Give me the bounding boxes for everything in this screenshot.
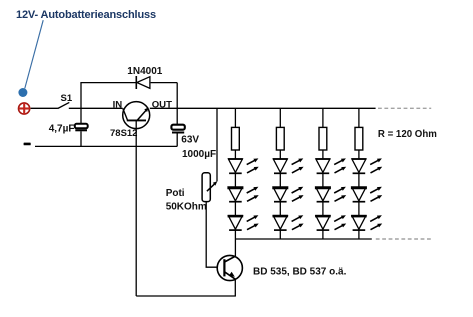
callout dot	[18, 88, 27, 97]
wire bypass top left	[80, 82, 136, 84]
LED D32	[315, 187, 346, 202]
capacitor C1 4,7uF	[75, 108, 88, 146]
svg-text:4,7µF: 4,7µF	[49, 123, 75, 134]
wire collector to LED bus	[234, 239, 236, 256]
wire bypass top right	[151, 82, 178, 84]
wire column 3	[322, 108, 324, 127]
wire bottom return	[136, 295, 236, 297]
diode D1 1N4001	[136, 76, 150, 89]
LED D21	[273, 158, 304, 173]
wire rail to potentiometer wiper	[216, 108, 218, 181]
svg-text:BD 535, BD 537 o.ä.: BD 535, BD 537 o.ä.	[253, 267, 347, 278]
svg-text:63V: 63V	[181, 135, 199, 146]
wire column 1	[234, 108, 236, 127]
LED D22	[272, 187, 303, 202]
svg-text:Poti: Poti	[166, 188, 185, 199]
resistor R2 120 Ohm	[276, 127, 284, 150]
node - battery terminal	[24, 143, 31, 146]
LED D33	[315, 215, 346, 230]
LED D41	[352, 158, 383, 173]
svg-text:1000µF: 1000µF	[182, 149, 216, 160]
switch S1	[58, 102, 70, 108]
LED D23	[273, 215, 304, 230]
wire regulator OUT rail to LED columns	[150, 107, 376, 109]
regulator U1 78S12	[123, 102, 150, 129]
svg-text:OUT: OUT	[152, 100, 172, 111]
resistor R1 120 Ohm	[232, 127, 240, 150]
wire junction to diode bypass left	[80, 83, 82, 109]
transistor Q1 BD535	[217, 255, 242, 280]
wire switch to regulator IN	[69, 107, 123, 109]
svg-text:S1: S1	[61, 93, 73, 104]
wire top rail dashed continuation	[378, 107, 431, 109]
wire emitter down	[234, 279, 236, 296]
LED D43	[351, 215, 382, 230]
resistor R4 120 Ohm	[355, 127, 363, 150]
LED D31	[316, 158, 347, 173]
wire +12V to switch	[31, 107, 58, 109]
LED D42	[351, 187, 382, 202]
LED D11	[228, 158, 259, 173]
wire column 2	[279, 108, 281, 127]
wire LED bottom bus	[235, 238, 371, 240]
wire bypass right down to OUT rail	[176, 83, 178, 109]
svg-text:78S12: 78S12	[110, 128, 137, 139]
svg-text:IN: IN	[113, 100, 123, 111]
wire poti to transistor base	[206, 202, 217, 268]
resistor R3 120 Ohm	[319, 127, 327, 150]
callout line	[25, 20, 43, 88]
wire column 4	[358, 108, 360, 127]
ground rail wire	[35, 145, 177, 147]
node +12V battery terminal	[19, 103, 30, 114]
LED D13	[228, 215, 259, 230]
svg-text:50KOhm: 50KOhm	[166, 202, 207, 213]
wire bottom bus dashed continuation	[376, 238, 432, 240]
wire regulator ground pin down to bottom	[135, 121, 137, 296]
capacitor C2 1000uF 63V	[171, 108, 184, 146]
LED D12	[227, 187, 258, 202]
svg-text:R = 120 Ohm: R = 120 Ohm	[378, 129, 437, 140]
potentiometer P1 50KOhm	[202, 173, 217, 202]
svg-text:12V- Autobatterieanschluss: 12V- Autobatterieanschluss	[16, 9, 156, 21]
svg-text:1N4001: 1N4001	[127, 66, 162, 77]
